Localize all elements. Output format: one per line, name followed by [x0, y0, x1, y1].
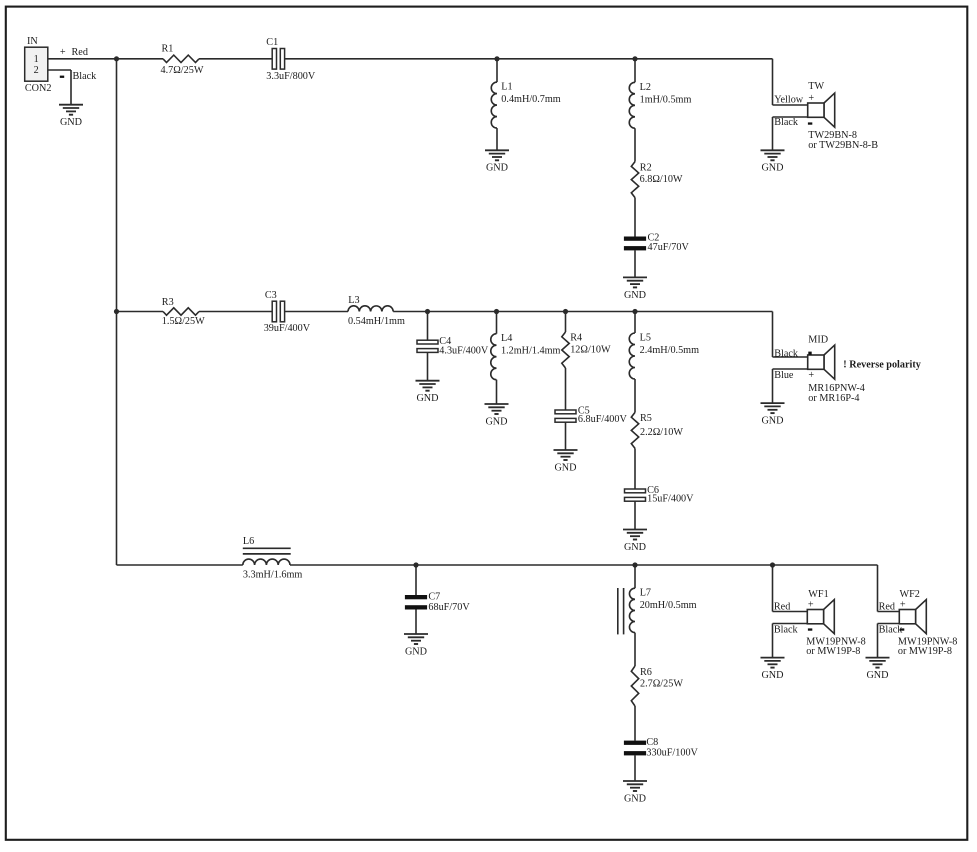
svg-text:+: +	[900, 600, 906, 611]
svg-text:GND: GND	[624, 542, 646, 553]
svg-text:GND: GND	[486, 163, 508, 174]
svg-text:39uF/400V: 39uF/400V	[264, 323, 311, 334]
svg-text:or TW29BN-8-B: or TW29BN-8-B	[808, 140, 878, 151]
svg-text:R3: R3	[162, 297, 174, 308]
svg-text:2.4mH/0.5mm: 2.4mH/0.5mm	[640, 345, 700, 356]
svg-text:Red: Red	[72, 47, 88, 58]
svg-text:2.2Ω/10W: 2.2Ω/10W	[640, 427, 683, 438]
svg-text:GND: GND	[624, 290, 646, 301]
svg-text:68uF/70V: 68uF/70V	[428, 602, 470, 613]
svg-text:0.4mH/0.7mm: 0.4mH/0.7mm	[501, 94, 561, 105]
svg-text:L6: L6	[243, 536, 254, 547]
svg-text:WF1: WF1	[808, 589, 828, 600]
svg-text:330uF/100V: 330uF/100V	[646, 748, 698, 759]
svg-text:L4: L4	[501, 333, 512, 344]
svg-text:0.54mH/1mm: 0.54mH/1mm	[348, 316, 405, 327]
svg-text:+: +	[808, 370, 814, 381]
svg-text:12Ω/10W: 12Ω/10W	[570, 345, 611, 356]
svg-text:3.3mH/1.6mm: 3.3mH/1.6mm	[243, 570, 303, 581]
svg-text:L5: L5	[640, 332, 651, 343]
svg-text:1mH/0.5mm: 1mH/0.5mm	[640, 94, 692, 105]
svg-text:GND: GND	[60, 117, 82, 128]
svg-text:R6: R6	[640, 667, 652, 678]
svg-text:4.7Ω/25W: 4.7Ω/25W	[161, 65, 204, 76]
svg-text:15uF/400V: 15uF/400V	[647, 494, 694, 505]
svg-text:Yellow: Yellow	[774, 95, 804, 106]
svg-text:GND: GND	[554, 462, 576, 473]
svg-text:C1: C1	[266, 37, 278, 48]
svg-text:L7: L7	[640, 588, 651, 599]
svg-text:+: +	[60, 47, 66, 58]
svg-text:CON2: CON2	[25, 83, 52, 94]
svg-text:R1: R1	[162, 44, 174, 55]
svg-text:! Reverse polarity: ! Reverse polarity	[843, 359, 921, 370]
svg-text:2: 2	[34, 65, 39, 76]
svg-text:GND: GND	[405, 646, 427, 657]
svg-text:C3: C3	[265, 290, 277, 301]
svg-text:L2: L2	[640, 82, 651, 93]
svg-text:Red: Red	[879, 601, 895, 612]
svg-text:2.7Ω/25W: 2.7Ω/25W	[640, 679, 683, 690]
svg-text:L3: L3	[348, 295, 359, 306]
svg-text:Red: Red	[774, 601, 790, 612]
svg-text:GND: GND	[761, 163, 783, 174]
svg-text:GND: GND	[416, 393, 438, 404]
svg-text:4.3uF/400V: 4.3uF/400V	[439, 346, 489, 357]
svg-text:+: +	[808, 93, 814, 104]
svg-text:6.8Ω/10W: 6.8Ω/10W	[640, 174, 683, 185]
svg-text:WF2: WF2	[900, 589, 920, 600]
svg-text:6.8uF/400V: 6.8uF/400V	[578, 414, 628, 425]
svg-text:Black: Black	[73, 71, 98, 82]
svg-text:or MW19P-8: or MW19P-8	[806, 646, 860, 657]
svg-text:GND: GND	[624, 793, 646, 804]
svg-text:L1: L1	[501, 81, 512, 92]
svg-text:20mH/0.5mm: 20mH/0.5mm	[640, 600, 697, 611]
svg-text:3.3uF/800V: 3.3uF/800V	[266, 71, 316, 82]
svg-text:GND: GND	[485, 416, 507, 427]
svg-text:1: 1	[34, 54, 39, 65]
svg-text:GND: GND	[761, 416, 783, 427]
svg-text:Black: Black	[879, 625, 904, 636]
svg-text:Blue: Blue	[774, 370, 794, 381]
svg-text:GND: GND	[866, 670, 888, 681]
svg-text:47uF/70V: 47uF/70V	[648, 242, 690, 253]
svg-text:R2: R2	[640, 162, 652, 173]
svg-text:Black: Black	[774, 348, 799, 359]
svg-text:GND: GND	[761, 670, 783, 681]
svg-text:C7: C7	[428, 591, 440, 602]
svg-text:R5: R5	[640, 413, 652, 424]
svg-text:IN: IN	[27, 36, 38, 47]
svg-text:or MW19P-8: or MW19P-8	[898, 646, 952, 657]
svg-text:C8: C8	[646, 737, 658, 748]
svg-text:Black: Black	[774, 117, 799, 128]
svg-text:MID: MID	[808, 335, 828, 346]
svg-text:Black: Black	[774, 625, 799, 636]
svg-text:or MR16P-4: or MR16P-4	[808, 393, 859, 404]
svg-text:1.5Ω/25W: 1.5Ω/25W	[162, 316, 205, 327]
svg-text:+: +	[808, 600, 814, 611]
svg-text:TW: TW	[808, 81, 824, 92]
svg-text:R4: R4	[570, 333, 582, 344]
svg-text:1.2mH/1.4mm: 1.2mH/1.4mm	[501, 346, 561, 357]
